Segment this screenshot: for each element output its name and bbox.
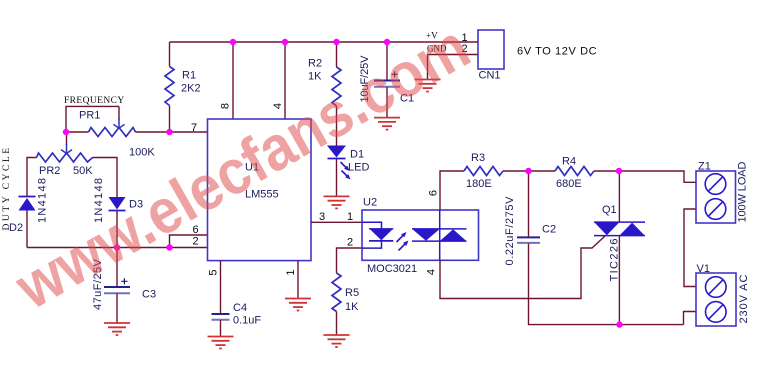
wire C1 to ground — [386, 87, 388, 118]
wire Z1 lower to V1 upper — [684, 209, 696, 287]
wire CN1 GND pin — [428, 55, 479, 80]
svg-text:1K: 1K — [345, 301, 359, 313]
svg-text:Q1: Q1 — [602, 204, 617, 216]
wire C4 to ground — [220, 320, 222, 337]
svg-text:R4: R4 — [562, 156, 576, 168]
wire C3 top — [116, 248, 118, 288]
ground under C4 — [208, 337, 234, 349]
svg-text:D1: D1 — [350, 149, 364, 161]
wire Q1 bottom — [618, 236, 620, 325]
wire pin4 stub — [284, 42, 286, 119]
svg-text:LED: LED — [348, 162, 369, 174]
wire Q1 top — [618, 171, 620, 222]
resistor R4 — [555, 167, 594, 176]
capacitor C1 — [359, 55, 414, 105]
capacitor C2 — [504, 196, 556, 266]
ground under D1 — [324, 196, 350, 208]
wire V1 lower — [684, 312, 697, 325]
svg-text:CN1: CN1 — [479, 70, 501, 82]
ground under pin1 — [285, 299, 311, 311]
svg-text:100K: 100K — [129, 147, 155, 159]
wire U2 pin6 up — [440, 171, 464, 210]
svg-text:7: 7 — [191, 122, 197, 134]
svg-text:U2: U2 — [363, 197, 377, 209]
svg-text:PR2: PR2 — [39, 165, 60, 177]
resistor R1 — [165, 67, 174, 106]
svg-text:4: 4 — [426, 269, 438, 275]
wire pin1 — [297, 261, 299, 299]
ground under C3 — [104, 323, 130, 335]
connector V1 — [696, 263, 750, 326]
wire Q1 gate — [440, 236, 605, 299]
svg-text:R5: R5 — [345, 287, 359, 299]
svg-text:0.1uF: 0.1uF — [233, 315, 261, 327]
svg-text:1: 1 — [285, 269, 297, 275]
svg-text:5: 5 — [208, 269, 220, 275]
svg-text:6V TO 12V DC: 6V TO 12V DC — [517, 46, 597, 58]
wire U2 pin2 to R5 — [337, 248, 363, 273]
wire pin3 to U2 — [311, 221, 362, 223]
svg-text:1: 1 — [347, 211, 353, 223]
wire PR2 right leg — [93, 158, 118, 198]
wire R1 top — [169, 42, 171, 67]
ground under R5 — [324, 335, 350, 347]
svg-text:6: 6 — [428, 190, 440, 196]
svg-text:R3: R3 — [471, 152, 485, 164]
svg-text:2: 2 — [347, 237, 353, 249]
wire R3 to R4 — [503, 170, 555, 172]
potentiometer PR2 — [2, 132, 93, 231]
node PR1 left / PR2 wiper junction — [63, 129, 69, 135]
svg-text:100W LOAD: 100W LOAD — [737, 161, 749, 222]
resistor R5 — [332, 273, 341, 312]
svg-text:180E: 180E — [466, 178, 492, 190]
node D3 / C3 junction — [114, 244, 120, 250]
potentiometer PR1 — [64, 96, 155, 159]
svg-text:C4: C4 — [233, 302, 247, 314]
node R1 / PR1 / pin 7 junction — [166, 129, 172, 135]
wire pin8 stub — [232, 42, 234, 119]
node +V rail / C1 junction — [384, 39, 390, 45]
svg-text:C3: C3 — [142, 289, 156, 301]
IC U1 LM555 timer box — [191, 103, 325, 276]
wire pin6 loop — [170, 235, 208, 248]
node R4 / Q1 junction — [616, 168, 622, 174]
svg-text:2: 2 — [193, 236, 199, 248]
svg-text:0.22uF/275V: 0.22uF/275V — [504, 196, 516, 266]
svg-text:8: 8 — [220, 103, 232, 109]
svg-text:DUTY CYCLE: DUTY CYCLE — [2, 148, 12, 231]
svg-text:230V AC: 230V AC — [738, 274, 750, 323]
svg-text:MOC3021: MOC3021 — [367, 263, 417, 275]
LED D1 — [327, 146, 369, 180]
ground under GND wire — [415, 80, 441, 92]
svg-text:680E: 680E — [556, 178, 582, 190]
wire D1 to ground — [336, 159, 338, 196]
svg-text:3: 3 — [319, 211, 325, 223]
svg-text:V1: V1 — [697, 263, 710, 275]
connector CN1 — [426, 30, 597, 82]
wire PR1 line left — [66, 131, 89, 133]
node Q1 / bottom rail junction — [616, 321, 622, 327]
resistor R3 — [464, 167, 503, 176]
wire R2 top — [336, 42, 338, 67]
svg-text:Z1: Z1 — [698, 161, 711, 173]
wire PR1 to pin7 — [136, 131, 208, 133]
node +V rail / R2 junction — [333, 39, 339, 45]
svg-text:D2: D2 — [9, 222, 23, 234]
wire top +V rail — [170, 41, 479, 43]
opto-triac U2 MOC3021 — [347, 190, 479, 275]
svg-text:R1: R1 — [182, 70, 196, 82]
wire R2 to D1 — [336, 106, 338, 146]
wire pin5 — [220, 261, 222, 314]
wire R5 to ground — [336, 312, 338, 336]
capacitor C4 — [212, 302, 262, 327]
svg-text:FREQUENCY: FREQUENCY — [64, 96, 125, 106]
ground under C1 — [374, 118, 400, 130]
node +V rail / pin 8 junction — [230, 39, 236, 45]
svg-text:1K: 1K — [308, 71, 322, 83]
triac Q1 TIC226 — [594, 204, 645, 282]
svg-text:R2: R2 — [308, 58, 322, 70]
node R3 / R4 / C2 junction — [525, 168, 531, 174]
svg-text:PR1: PR1 — [79, 110, 100, 122]
wire C2 top — [528, 171, 530, 237]
connector Z1 — [696, 161, 749, 224]
svg-text:C2: C2 — [542, 224, 556, 236]
wire PR2 left leg — [27, 158, 37, 198]
node pin 6 / pin 2 junction — [166, 244, 172, 250]
wire D3 bottom — [116, 211, 118, 248]
wire R1 bottom — [169, 106, 171, 133]
wire R4 to Z1 — [594, 171, 696, 182]
capacitor C3 — [92, 258, 156, 310]
wire C1 top — [386, 42, 388, 81]
wire C3 to ground — [116, 294, 118, 324]
wire C2 bottom — [529, 244, 684, 325]
diode D3 — [93, 178, 143, 223]
diode D2 — [9, 178, 49, 234]
svg-text:50K: 50K — [73, 165, 93, 177]
wire D2 bottom — [26, 211, 28, 248]
svg-text:1N4148: 1N4148 — [37, 178, 49, 223]
wire bottom row to pin2 — [27, 247, 208, 249]
svg-text:2K2: 2K2 — [181, 83, 201, 95]
node +V rail / pin 4 junction — [282, 39, 288, 45]
resistor R2 — [332, 67, 341, 106]
